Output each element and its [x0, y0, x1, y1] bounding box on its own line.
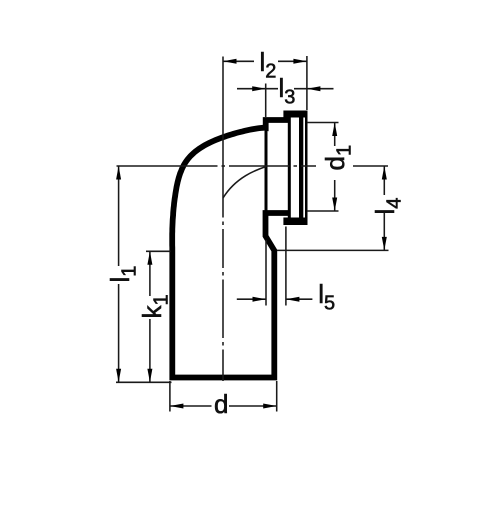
socket internal end face: [265, 126, 268, 211]
svg-text:d: d: [214, 389, 228, 419]
socket sealing-ring bead bottom bar: [283, 218, 306, 226]
d1 arrowhead 1: [332, 123, 337, 137]
extension line socket mouth (l2/l3 right): [306, 56, 308, 110]
dimension l4: [370, 166, 406, 250]
l1 arrowhead 1: [116, 166, 121, 180]
l1 dimension line segment: [118, 166, 120, 266]
l3 dimension line segment: [237, 88, 278, 90]
k1 dimension line segment: [149, 319, 151, 382]
dimension d1: [320, 123, 356, 212]
k1 dimension line segment: [149, 251, 151, 296]
extension line l5 left: [265, 240, 267, 306]
dimension k1: [137, 251, 173, 382]
socket mouth end face: [305, 111, 308, 226]
l4 arrowhead 2: [382, 237, 387, 251]
l5 dimension line segment: [237, 298, 266, 300]
extension line d left: [169, 381, 171, 412]
d arrowhead 2: [263, 404, 277, 409]
extension line d right: [276, 381, 278, 412]
extension line socket step (l3 left): [265, 84, 267, 118]
d1 dimension line segment: [334, 180, 336, 211]
socket sealing-ring bead left edge: [288, 118, 291, 218]
l1 dimension line segment: [118, 284, 120, 382]
extension line l4 bottom: [277, 249, 389, 251]
l2 dimension line segment: [223, 60, 254, 62]
dimension l2: [223, 47, 307, 83]
k1 arrowhead 1: [147, 251, 152, 264]
d dimension line segment: [229, 405, 277, 407]
socket sealing-ring bead right edge: [299, 118, 303, 218]
l2 dimension line segment: [278, 60, 307, 62]
dimension l3: [237, 73, 334, 109]
d1 dimension line segment: [334, 123, 336, 147]
dimension l1: [105, 166, 141, 382]
l1 arrowhead 2: [116, 369, 121, 383]
d1 arrowhead 2: [332, 198, 337, 212]
l5 arrowhead 1: [253, 297, 267, 302]
l5 arrowhead 2: [286, 297, 300, 302]
l2 arrowhead 2: [293, 59, 307, 64]
extension line l5 right: [285, 227, 287, 306]
extension line d1 top: [307, 122, 339, 124]
dimension l5: [237, 279, 335, 315]
d arrowhead 1: [170, 404, 184, 409]
l4 dimension line segment: [383, 166, 385, 195]
l3 arrowhead 2: [307, 86, 321, 91]
d dimension line segment: [170, 405, 212, 407]
k1 arrowhead 2: [147, 369, 152, 383]
socket sealing-ring bead top bar: [283, 111, 306, 118]
inner bend contour: [223, 167, 266, 199]
pipe elbow body outline: [172, 120, 288, 378]
vertical centerline: [222, 57, 224, 382]
extension line d1 bottom: [307, 210, 339, 212]
l3 dimension line segment: [294, 88, 334, 90]
l3 arrowhead 1: [252, 86, 266, 91]
l4 arrowhead 1: [382, 166, 387, 180]
extension line bottom reference: [116, 381, 172, 383]
horizontal centerline: [117, 165, 389, 167]
extension line k1 top: [146, 250, 171, 252]
l2 arrowhead 1: [223, 59, 237, 64]
l5 dimension line segment: [286, 298, 313, 300]
l4 dimension line segment: [383, 213, 385, 250]
dimension d: [170, 389, 277, 419]
